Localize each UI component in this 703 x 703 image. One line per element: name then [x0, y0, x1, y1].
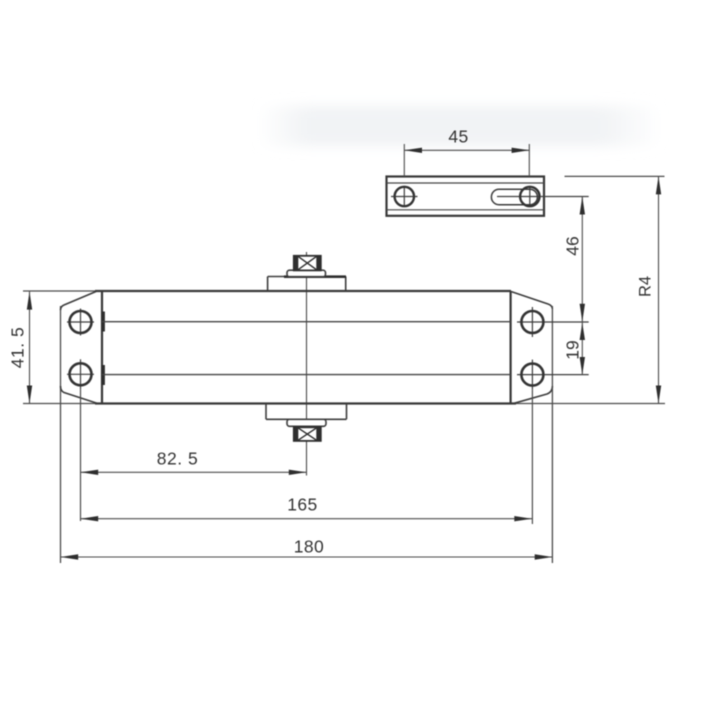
- dim 41.5 top arrow: [27, 292, 32, 310]
- right end plate bottom chamfer: [514, 386, 552, 403]
- svg-text:41. 5: 41. 5: [8, 327, 28, 368]
- screw top-left circle: [70, 311, 92, 333]
- dim R4 top extension line: [565, 175, 665, 177]
- dim 82.5 right arrow: [289, 470, 307, 475]
- screw top-left cross: [67, 309, 94, 336]
- bracket right hole cross + leader to 46 dim: [497, 186, 589, 207]
- right end plate inner edge: [510, 291, 512, 404]
- dim 19 line: [581, 322, 583, 375]
- bracket left hole: [395, 187, 414, 206]
- extension line from bottom-left screw down to dims: [80, 389, 82, 521]
- extension line from bottom-right screw down to 165 dim: [531, 390, 533, 524]
- screw bottom-left cross: [67, 359, 94, 389]
- bracket right hole: [520, 187, 539, 206]
- dim 45 line: [404, 149, 529, 151]
- screw bottom-right circle: [521, 364, 543, 386]
- dim 45 extension line right: [528, 144, 530, 177]
- arm bracket inner top line: [387, 182, 545, 184]
- bracket left hole cross: [391, 186, 418, 207]
- svg-text:46: 46: [563, 236, 583, 255]
- arm bracket inner bottom line: [387, 209, 545, 211]
- right end plate outer edge + 180 extension: [551, 306, 553, 563]
- svg-text:R4: R4: [637, 276, 655, 297]
- dim 19 top arrow: [580, 323, 585, 340]
- left end plate bottom chamfer: [61, 386, 98, 403]
- dim R4 top arrow: [656, 176, 661, 194]
- dim 165 right arrow: [514, 516, 532, 521]
- left end plate inner edge: [101, 291, 103, 404]
- svg-text:165: 165: [287, 495, 317, 515]
- dim 82.5 left arrow: [81, 470, 99, 475]
- dim 165 line: [81, 518, 533, 520]
- screw top-right circle: [521, 311, 543, 333]
- left end plate top chamfer: [61, 292, 97, 311]
- dim 46 bottom arrow: [580, 304, 585, 322]
- centerline of pinion axis: [306, 252, 308, 476]
- body inner line bottom: [102, 374, 511, 376]
- top cap: [287, 270, 326, 277]
- bottom mounting plate: [266, 404, 347, 420]
- dim R4 bottom arrow: [656, 386, 661, 404]
- dim 46 line: [581, 197, 583, 322]
- dim 82.5 line: [81, 471, 307, 473]
- left plate weld mark bottom: [101, 365, 104, 385]
- faint gray band artifact: [258, 106, 662, 146]
- dim 45 left arrow: [404, 148, 422, 153]
- dim 180 line: [61, 556, 553, 558]
- screw bottom-left circle: [70, 363, 92, 385]
- top pinion square: [294, 256, 321, 271]
- bottom cap: [287, 419, 326, 426]
- dim 19 bottom arrow: [580, 357, 585, 375]
- dim 46 top arrow: [580, 197, 585, 215]
- top mounting plate: [268, 277, 346, 292]
- screw bottom-right cross + extension to 19 dim: [517, 360, 589, 390]
- dim 45 extension line left: [403, 144, 405, 177]
- dim 180 right arrow: [535, 554, 553, 559]
- screw top-right cross + extension to 19 dim: [517, 307, 589, 337]
- left end plate outer edge + 180 extension: [60, 306, 62, 563]
- svg-text:180: 180: [294, 537, 324, 557]
- top plate thick segment: [284, 275, 346, 278]
- body inner line top: [102, 321, 511, 323]
- left plate weld mark top: [101, 312, 104, 332]
- dim 45 right arrow: [512, 148, 530, 153]
- dim 41.5 line: [29, 292, 31, 404]
- svg-text:19: 19: [563, 340, 583, 359]
- bracket slot: [491, 189, 537, 204]
- body top edge: [95, 290, 511, 292]
- body bottom edge extension line (full): [23, 403, 665, 405]
- body top edge extension line (left): [23, 290, 102, 292]
- dim R4 line: [658, 176, 660, 403]
- svg-text:82. 5: 82. 5: [157, 449, 198, 469]
- body bottom edge: [95, 402, 516, 404]
- svg-text:45: 45: [448, 127, 468, 147]
- arm bracket outer rect: [387, 177, 545, 216]
- dim 180 left arrow: [61, 554, 79, 559]
- dim 41.5 bottom arrow: [27, 386, 32, 404]
- right end plate top chamfer: [511, 292, 552, 310]
- dim 165 left arrow: [81, 516, 99, 521]
- bottom pinion square: [294, 427, 321, 441]
